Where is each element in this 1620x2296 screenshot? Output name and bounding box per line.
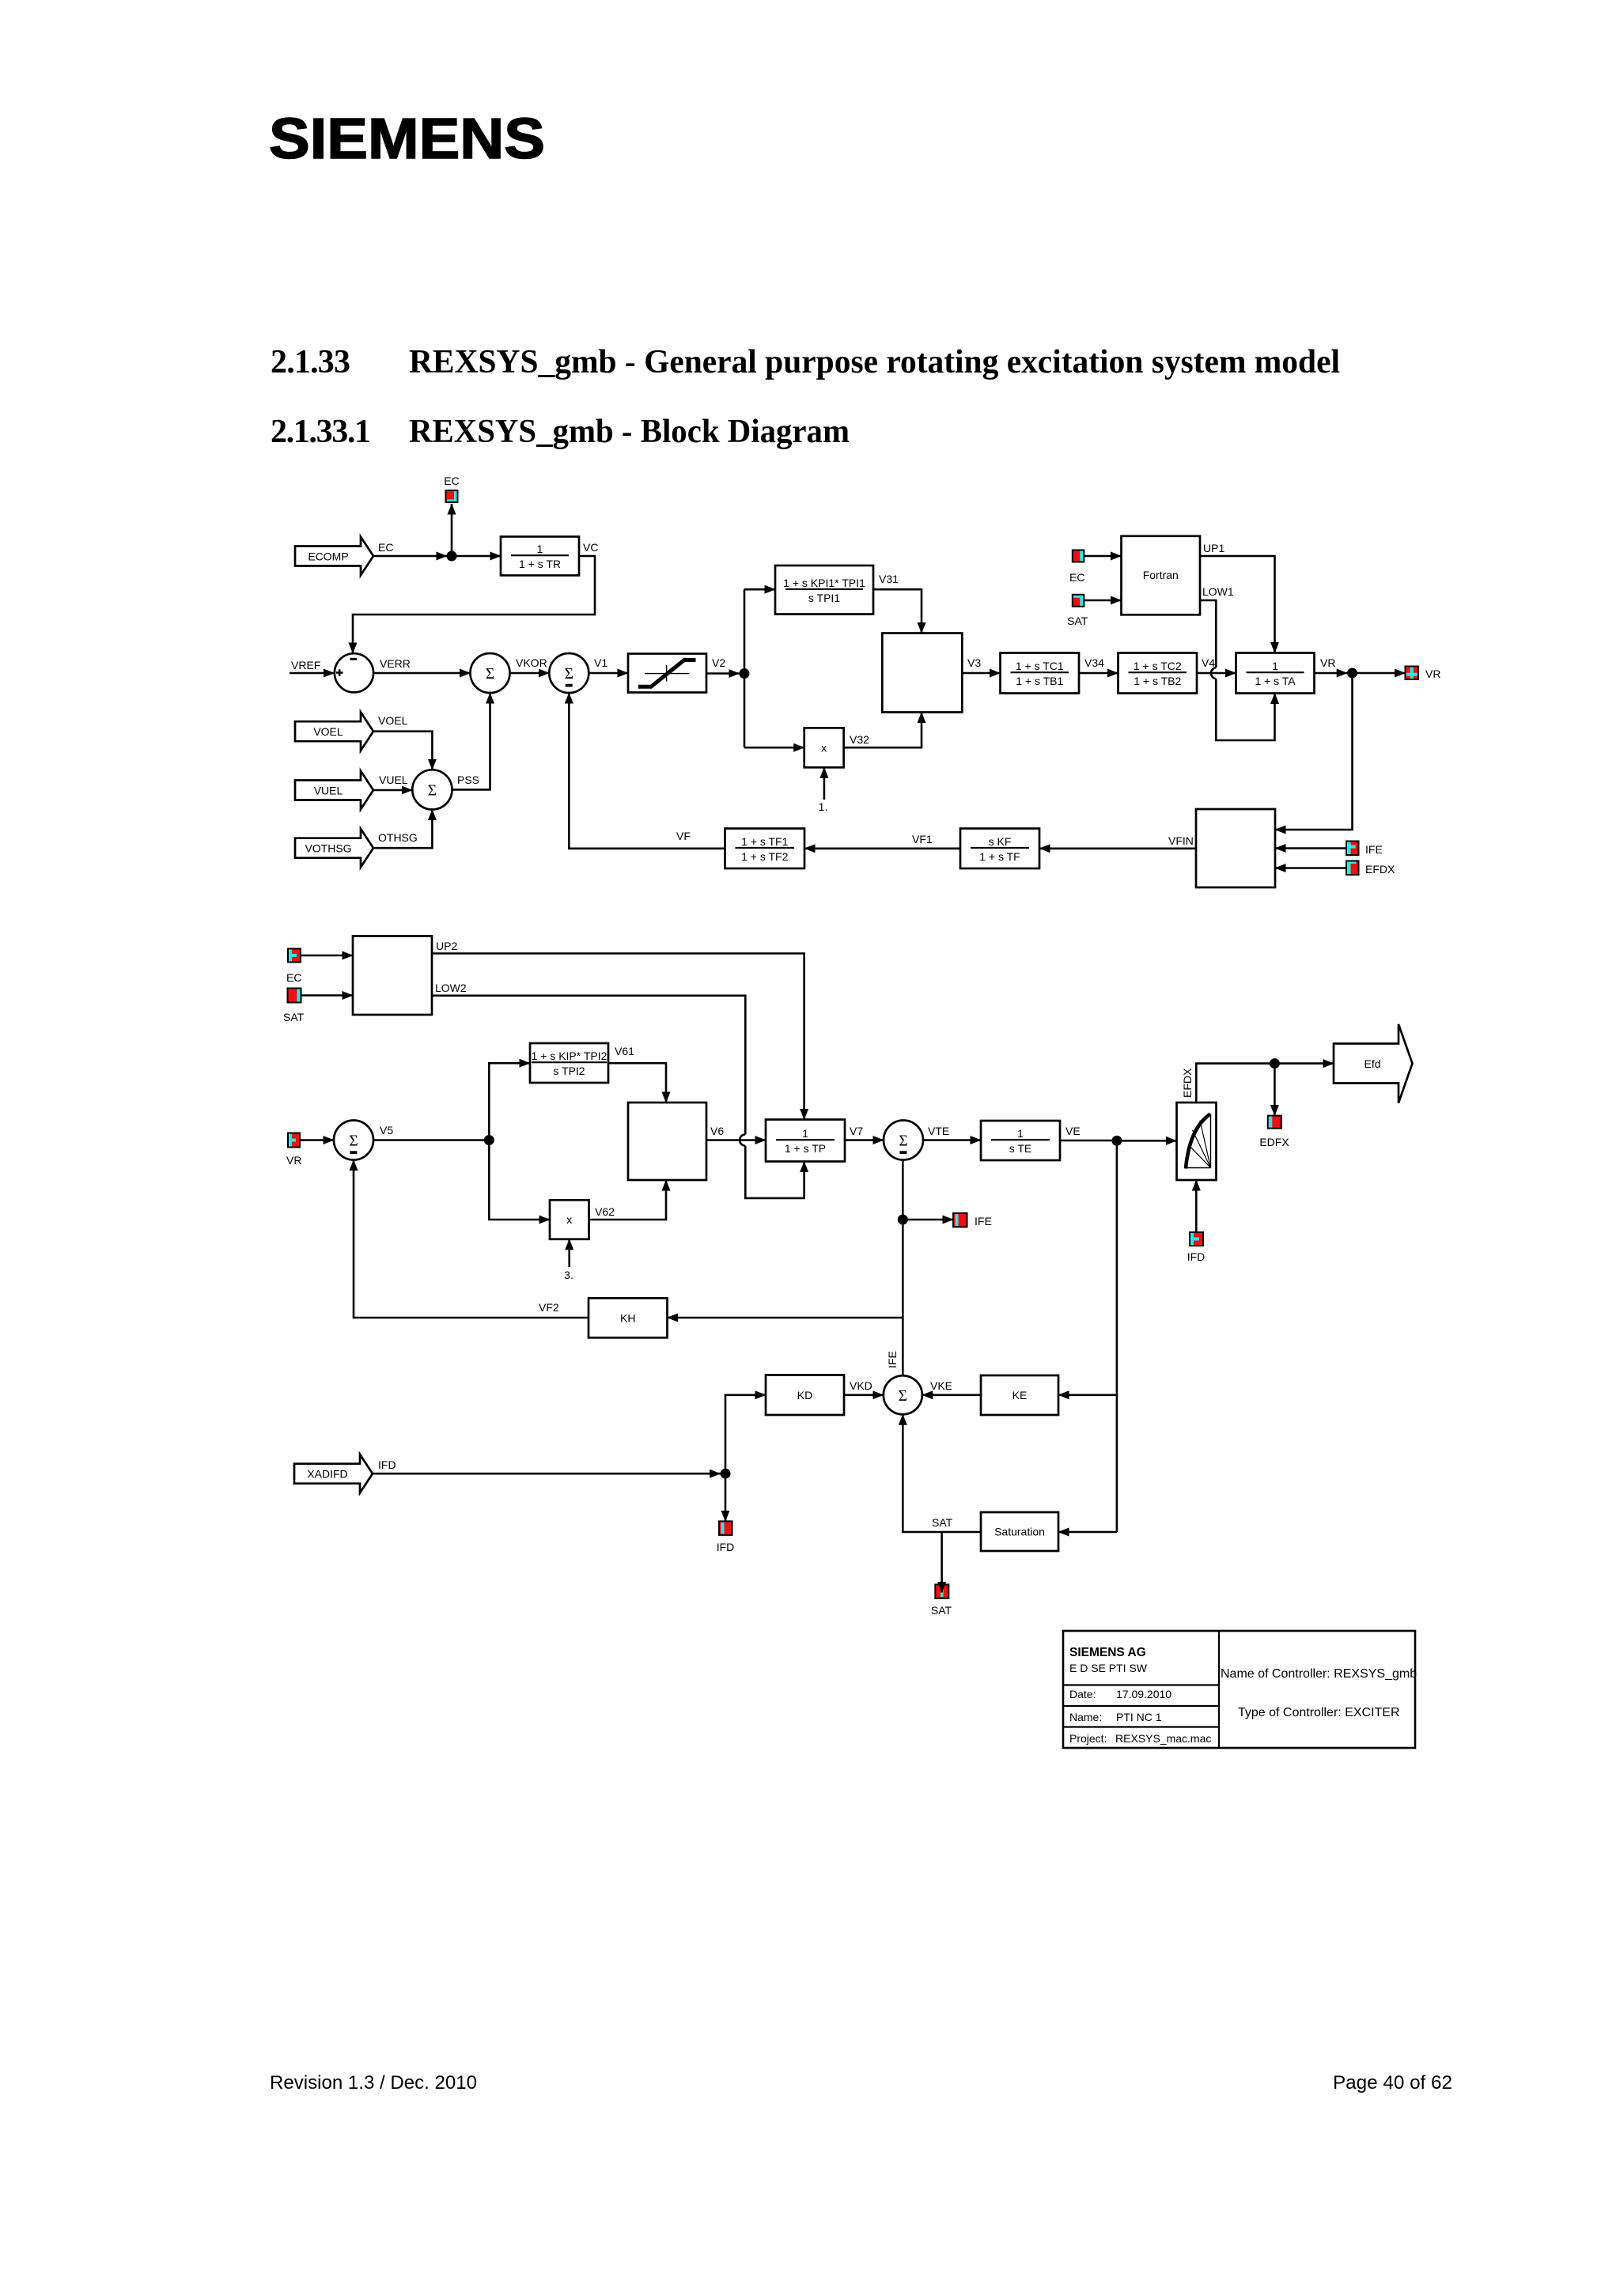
svg-text:VERR: VERR [380,657,411,670]
svg-text:1 + s TF1: 1 + s TF1 [741,835,788,848]
wire V6 [706,1139,766,1141]
svg-text:s TE: s TE [1009,1142,1032,1155]
svg-text:KH: KH [620,1311,635,1324]
svg-text:17.09.2010: 17.09.2010 [1116,1688,1171,1700]
block limiter [628,654,706,693]
heading 2.1.33 [271,344,1340,380]
summing junction VREF [335,653,373,692]
svg-text:1 + s TC1: 1 + s TC1 [1016,660,1064,672]
junction V2 [740,668,750,679]
svg-text:1: 1 [1272,660,1278,672]
wire IFE vertical [902,1160,904,1376]
block (1+sKIP*TPI2)/(sTPI2) [530,1043,608,1083]
svg-text:OTHSG: OTHSG [378,831,418,844]
svg-text:1 + s TF: 1 + s TF [979,850,1020,863]
wire VE to EFDX block [1117,1140,1177,1142]
block (1+sTC1)/(1+sTB1) [1001,653,1080,694]
input arrow VUEL [295,771,373,810]
svg-text:KE: KE [1012,1389,1028,1401]
svg-text:EFDX: EFDX [1181,1068,1194,1098]
svg-text:EDFX: EDFX [1259,1136,1289,1148]
wire VKD [844,1394,884,1397]
svg-text:Page 40 of 62: Page 40 of 62 [1333,2072,1452,2094]
junction EC [447,551,457,562]
junction VE [1111,1136,1122,1146]
svg-text:1 + s TB2: 1 + s TB2 [1134,675,1181,687]
svg-text:Revision 1.3 / Dec. 2010: Revision 1.3 / Dec. 2010 [270,2072,477,2094]
wire VERR [373,672,470,675]
svg-text:1 + s TA: 1 + s TA [1255,675,1296,687]
io icon IFD row3 [719,1521,732,1535]
wire constant 3 into multiplier [568,1239,570,1267]
wire EFDX out to junction [1196,1064,1270,1103]
wire to Efd arrow [1274,1062,1334,1065]
io icon IFE row2 [953,1213,967,1227]
svg-text:XADIFD: XADIFD [307,1468,347,1481]
wire LOW1 lower [1216,679,1274,740]
wire V61 [608,1063,666,1103]
io icon SAT row2 [288,989,301,1003]
title block table [1063,1631,1417,1748]
svg-text:SAT: SAT [283,1011,305,1023]
svg-text:1 + s TB1: 1 + s TB1 [1016,675,1063,687]
wire EC row2 [301,955,353,957]
wire V5 to KIP block [489,1063,530,1140]
io icon IFE row1 [1346,842,1359,856]
wire VFIN to KF [1039,848,1196,850]
wire IFD down to icon [725,1473,727,1521]
wire constant 1 into multiplier [823,767,826,800]
io icon VR row2 [288,1133,300,1148]
wire V32 [844,713,922,748]
svg-text:V32: V32 [850,733,869,746]
svg-text:1: 1 [802,1127,808,1140]
svg-text:SIEMENS AG: SIEMENS AG [1069,1646,1146,1659]
block UP2/LOW2 selector (empty) [353,936,432,1016]
wire VUEL [373,789,412,792]
svg-text:VC: VC [583,541,598,554]
junction IFE [898,1215,908,1225]
svg-text:V2: V2 [712,656,725,669]
wire EFDX junction to EDFX icon [1274,1064,1276,1116]
wire LOW2 upper [432,996,745,1135]
wire VE vertical down [1116,1140,1118,1532]
io icon SAT row3 [935,1584,948,1598]
block EFDX saturation function [1177,1103,1217,1180]
wire V3 [962,672,1000,675]
svg-text:VF2: VF2 [539,1301,559,1314]
svg-text:VOTHSG: VOTHSG [305,842,351,855]
svg-text:VKE: VKE [930,1379,952,1392]
block VFIN (empty) [1196,809,1275,887]
wire LOW1 hop over V4 [1211,668,1216,679]
svg-text:1 + s TF2: 1 + s TF2 [741,850,788,863]
block KD [766,1375,844,1416]
block multiplier x [804,728,844,767]
svg-text:UP1: UP1 [1203,542,1224,554]
svg-text:VOEL: VOEL [313,725,343,738]
svg-text:IFD: IFD [717,1541,735,1553]
svg-text:VUEL: VUEL [314,785,343,797]
svg-text:Fortran: Fortran [1143,569,1179,581]
wire EFDX to VFIN [1275,867,1346,869]
svg-text:EC: EC [1069,571,1084,584]
wire SAT to Fortran [1084,600,1121,602]
svg-text:VKOR: VKOR [516,656,547,669]
wire VR out [1315,672,1348,675]
svg-text:SAT: SAT [932,1516,953,1529]
wire V1 [589,672,628,675]
wire IFE to icon [903,1219,953,1221]
svg-text:s TPI2: s TPI2 [553,1065,585,1077]
svg-text:1 + s KPI1* TPI1: 1 + s KPI1* TPI1 [783,577,865,589]
svg-text:Type of Controller: EXCITER: Type of Controller: EXCITER [1238,1706,1400,1719]
io icon IFD row2 [1190,1232,1203,1246]
svg-text:EFDX: EFDX [1365,863,1395,876]
output arrow Efd [1334,1024,1413,1103]
svg-text:IFE: IFE [886,1351,899,1368]
block multiplier x row2 [550,1200,589,1239]
svg-text:LOW1: LOW1 [1202,585,1234,598]
svg-text:s KF: s KF [989,835,1012,848]
svg-text:VE: VE [1065,1125,1081,1137]
svg-text:PSS: PSS [457,774,479,786]
block Saturation [981,1512,1058,1551]
svg-text:VOEL: VOEL [378,714,408,727]
wire PSS to S1 [452,693,490,789]
svg-text:EC: EC [444,475,459,487]
svg-text:Project:: Project: [1069,1732,1107,1745]
junction EFDX [1270,1058,1280,1069]
svg-text:VKD: VKD [850,1379,872,1392]
svg-text:VF1: VF1 [912,833,933,845]
wire VE [1060,1140,1112,1142]
svg-text:VFIN: VFIN [1168,834,1194,847]
wire VR to icon [1353,672,1406,675]
block (1+sTC2)/(1+sTB2) [1118,653,1198,694]
wire SAT row2 [301,994,354,997]
wire V31 [873,589,922,633]
summing junction VTE [884,1121,923,1160]
heading 2.1.33.1 [271,414,850,450]
svg-text:Σ: Σ [899,1133,907,1150]
svg-text:ECOMP: ECOMP [308,550,348,563]
block 1/(1+sTA) [1236,653,1315,694]
block PI selector row2 (empty) [628,1103,706,1180]
svg-text:VR: VR [1320,656,1335,669]
wire V5 [373,1139,484,1141]
block 1/(1+sTR) [501,537,579,576]
svg-text:3.: 3. [564,1269,573,1281]
wire ECOMP to junction [373,555,447,558]
wire VR row2 input [300,1139,334,1141]
block (1+sTF1)/(1+sTF2) [725,829,805,869]
wire VF2 to V5 sum [354,1160,589,1318]
wire VC feedback to VREF sum [353,556,595,653]
svg-text:VR: VR [286,1154,301,1167]
wire EC to Fortran [1084,555,1121,558]
block (1+sKPI1*TPI1)/(sTPI1) [775,565,873,615]
svg-text:x: x [566,1213,572,1226]
wire LOW2 hop over V6 [740,1134,745,1145]
block 1/(sTE) [981,1121,1060,1160]
svg-text:V31: V31 [879,573,899,585]
summing junction S1 [471,653,510,693]
svg-text:1 + s TC2: 1 + s TC2 [1134,660,1182,672]
svg-text:KD: KD [797,1389,812,1401]
io icon EDFX [1268,1116,1281,1129]
svg-text:V5: V5 [380,1124,393,1137]
wire SAT to VKE sum [903,1414,981,1532]
io icon VR out [1406,667,1419,680]
svg-text:LOW2: LOW2 [435,982,467,994]
io icon EC fortran [1073,550,1084,562]
svg-text:Σ: Σ [486,666,494,683]
wire UP2 [432,954,804,1120]
wire V7 [845,1139,884,1141]
wire V62 [589,1180,667,1220]
wire V2 vertical [744,589,746,747]
svg-text:Σ: Σ [899,1388,907,1405]
wire LOW2 lower [745,1146,804,1198]
summing junction S2 [549,653,589,693]
summing junction V5 [334,1121,373,1160]
wire IFD to EFDX block [1195,1180,1198,1232]
svg-text:2.1.33: 2.1.33 [271,344,350,380]
svg-text:V61: V61 [615,1045,634,1057]
svg-text:Saturation: Saturation [994,1526,1045,1538]
svg-text:REXSYS_gmb - General purpose r: REXSYS_gmb - General purpose rotating ex… [409,344,1340,380]
io icon SAT fortran [1073,595,1084,607]
wire UP1 [1200,556,1275,653]
wire V5 to multiplier row2 [489,1140,550,1220]
svg-text:IFE: IFE [975,1215,992,1227]
svg-text:V1: V1 [594,656,607,669]
svg-text:Date:: Date: [1069,1688,1096,1700]
wire VF to S2 [569,693,725,849]
junction VR [1347,668,1357,679]
io icon EC row2 [288,949,301,963]
input arrow VOEL [295,712,373,751]
wire IFD up to KD [725,1395,766,1473]
wire V34 [1079,672,1118,675]
svg-text:VF: VF [676,830,691,842]
wire VR to VFIN box [1275,673,1353,830]
wire SAT down to icon [941,1532,943,1593]
wire junction to TR block [456,555,501,558]
svg-text:UP2: UP2 [436,940,457,952]
svg-text:IFE: IFE [1365,843,1383,856]
svg-text:1 + s KIP* TPI2: 1 + s KIP* TPI2 [532,1050,607,1062]
svg-text:V34: V34 [1084,656,1104,669]
wire V2 [706,672,740,675]
wire VKOR [510,672,550,675]
svg-text:VUEL: VUEL [379,774,408,786]
svg-text:Σ: Σ [349,1133,358,1150]
wire to KPI1 block [744,588,775,591]
block KH [589,1298,668,1337]
svg-text:SIEMENS: SIEMENS [269,108,545,171]
svg-text:V6: V6 [710,1125,724,1137]
svg-text:Σ: Σ [565,666,573,683]
wire KE to sum [922,1394,981,1397]
block Fortran [1122,536,1201,615]
svg-text:IFD: IFD [1187,1250,1206,1263]
wire LOW1 upper [1200,600,1216,668]
svg-text:x: x [821,741,827,754]
svg-text:IFD: IFD [378,1458,396,1471]
block 1/(1+sTP) [766,1120,845,1162]
svg-text:EC: EC [286,971,301,984]
wire VTE [923,1139,981,1141]
wire V2 to multiplier [744,747,804,749]
svg-text:VTE: VTE [928,1125,949,1137]
io icon EFDX row1 [1346,861,1359,876]
svg-text:2.1.33.1: 2.1.33.1 [271,414,371,450]
svg-text:REXSYS_gmb - Block Diagram: REXSYS_gmb - Block Diagram [409,414,850,450]
svg-text:V3: V3 [967,656,981,669]
svg-text:V62: V62 [595,1205,615,1218]
wire XADIFD to junction [373,1473,721,1475]
wire IFE to VFIN [1275,847,1346,849]
svg-text:VR: VR [1425,668,1440,680]
wire VF1 [804,848,960,850]
block sKF/(1+sTF) [960,829,1039,869]
input arrow ECOMP [295,537,373,576]
block KE [981,1375,1058,1415]
summing junction PSS [412,770,452,809]
svg-text:1 + s TR: 1 + s TR [519,558,561,570]
input arrow VOTHSG [295,829,373,868]
svg-text:1: 1 [537,543,543,555]
wire V4 [1197,672,1236,675]
svg-text:REXSYS_mac.mac: REXSYS_mac.mac [1115,1732,1211,1745]
svg-text:EC: EC [378,541,393,554]
svg-text:1 + s TP: 1 + s TP [785,1142,826,1155]
svg-text:Efd: Efd [1364,1057,1380,1070]
summing junction VKE [884,1375,922,1414]
wire VREF input [290,672,335,675]
svg-text:V7: V7 [850,1125,863,1137]
wire IFE to KH [668,1317,903,1319]
input arrow XADIFD [294,1454,373,1493]
block PI selector (empty) [882,634,962,713]
svg-text:PTI NC 1: PTI NC 1 [1116,1711,1162,1723]
svg-text:SAT: SAT [1067,615,1088,627]
svg-text:1: 1 [1017,1127,1024,1140]
svg-text:Name of Controller: REXSYS_gmb: Name of Controller: REXSYS_gmb [1221,1667,1417,1681]
wire VE to Saturation [1058,1531,1117,1534]
svg-text:V4: V4 [1202,656,1215,669]
svg-text:SAT: SAT [931,1604,952,1617]
io icon EC top [446,490,458,502]
svg-text:1.: 1. [819,800,828,813]
junction V5 [484,1135,494,1145]
wire VE to KE [1058,1394,1117,1397]
junction IFD [721,1469,731,1479]
svg-text:E D SE PTI SW: E D SE PTI SW [1069,1662,1148,1674]
wire VOEL [373,732,432,770]
svg-text:Name:: Name: [1069,1711,1102,1723]
wire OTHSG [373,810,432,849]
svg-text:Σ: Σ [428,782,437,799]
svg-text:VREF: VREF [291,659,320,671]
svg-text:s TPI1: s TPI1 [808,592,840,604]
wire junction to EC icon [451,504,453,556]
